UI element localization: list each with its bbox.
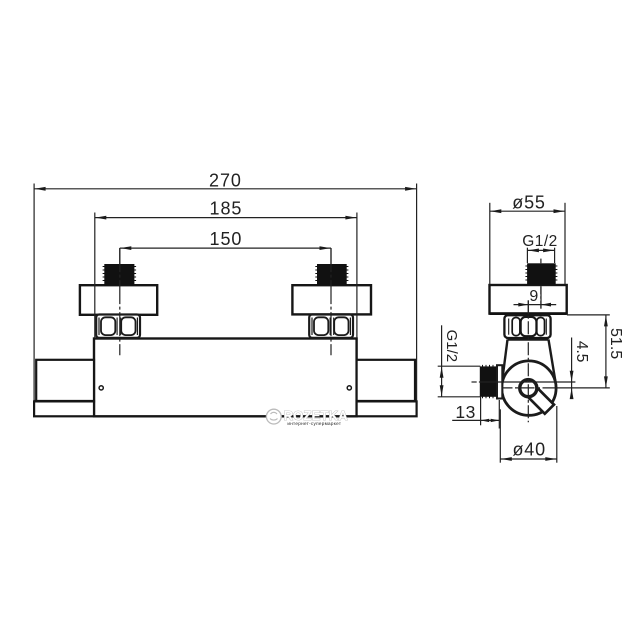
- escutcheon thick bottom edge: [490, 312, 567, 315]
- dimension o40: [500, 406, 557, 463]
- left end cap: [36, 360, 94, 402]
- neck right edge: [549, 340, 556, 383]
- svg-text:4.5: 4.5: [573, 341, 590, 363]
- dimension 185: [95, 199, 357, 338]
- right center line: [330, 248, 332, 355]
- body bar: [94, 339, 357, 417]
- outlet black union: [480, 365, 497, 398]
- right hex nut: [309, 315, 353, 338]
- neck top edge: [508, 339, 549, 341]
- left center line: [119, 248, 121, 355]
- dimension 4.5: [570, 338, 590, 400]
- side hex nut: [504, 315, 550, 338]
- left cap thick bottom edge: [35, 400, 95, 403]
- svg-text:150: 150: [210, 229, 243, 249]
- left lower strip: [34, 401, 94, 416]
- pipe offset center line: [540, 259, 542, 309]
- escutcheon plate: [490, 285, 567, 314]
- dimension 9: [514, 286, 557, 314]
- right cap thick bottom edge: [357, 400, 417, 403]
- left threaded pipe: [103, 264, 137, 285]
- dimension 51.5: [567, 315, 624, 388]
- valve horizontal center line: [502, 387, 610, 389]
- left eccentric block: [80, 285, 157, 315]
- svg-text:270: 270: [209, 170, 242, 190]
- svg-text:9: 9: [529, 288, 538, 305]
- svg-text:185: 185: [210, 199, 243, 219]
- neck left edge: [502, 340, 508, 386]
- handle slot tail: [524, 384, 554, 414]
- svg-text:интернет-супермаркет: интернет-супермаркет: [287, 421, 341, 426]
- svg-text:ø55: ø55: [512, 192, 545, 212]
- dimension 13: [452, 397, 499, 429]
- dimension o55: [490, 192, 565, 284]
- side threaded pipe: [525, 263, 557, 285]
- svg-text:G1/2: G1/2: [522, 233, 558, 250]
- dimension 270: [34, 170, 417, 401]
- dimension G1/2 top: [522, 233, 558, 263]
- valve circle o40: [502, 361, 556, 415]
- dimension G1/2 left: [438, 325, 481, 397]
- right screw hole: [347, 386, 351, 390]
- svg-text:ø40: ø40: [512, 439, 545, 459]
- side vertical center line: [527, 300, 529, 422]
- right end cap: [357, 360, 415, 402]
- outlet flange: [497, 365, 502, 398]
- svg-text:13: 13: [455, 402, 475, 422]
- left hex nut: [96, 315, 140, 338]
- watermark logo circle: [266, 409, 281, 424]
- right eccentric block: [292, 285, 371, 314]
- handle ring: [520, 380, 537, 397]
- right threaded pipe: [315, 264, 348, 285]
- svg-text:G1/2: G1/2: [443, 330, 460, 363]
- dimension 150: [120, 229, 331, 265]
- right lower strip: [357, 401, 417, 416]
- left screw hole: [99, 386, 103, 390]
- svg-text:51.5: 51.5: [607, 328, 624, 359]
- outlet horizontal center line: [472, 381, 576, 383]
